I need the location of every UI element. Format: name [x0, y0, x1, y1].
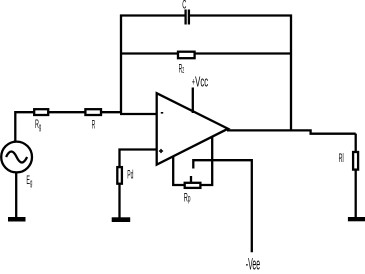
- svg-text:Eg: Eg: [26, 173, 32, 187]
- wire pot left (from op-amp underside to Rp): [173, 157, 185, 185]
- wire top loop to capacitor: [120, 14, 185, 16]
- wire Rg to R: [48, 111, 86, 113]
- resistor Rg: [34, 109, 48, 115]
- resistor Rl: [353, 152, 358, 170]
- potentiometer Rp: [185, 176, 201, 188]
- resistor Pd: [117, 167, 122, 184]
- resistor R: [85, 109, 101, 115]
- wire Rl to ground: [355, 170, 357, 217]
- wire capacitor to right: [190, 14, 292, 16]
- svg-text:Rl: Rl: [339, 152, 344, 165]
- ground (Pd): [112, 217, 131, 222]
- wire Eg to ground: [15, 173, 17, 218]
- wire input left (from Eg top up and right to Rg): [15, 112, 34, 142]
- svg-text:C: C: [182, 0, 186, 11]
- resistor R2: [178, 52, 195, 59]
- svg-text:Pd: Pd: [127, 168, 133, 181]
- wire pot right (from op-amp underside to Rp): [200, 137, 212, 185]
- wire feedback left vertical: [120, 15, 122, 114]
- wire non-inverting input: [120, 150, 158, 168]
- wire Pd to ground: [118, 184, 120, 217]
- ground (Eg): [8, 217, 26, 222]
- capacitor C: [186, 10, 189, 25]
- wire wiper to -Vee: [193, 160, 252, 252]
- wire +Vcc: [192, 88, 194, 114]
- wire output to Rl: [355, 134, 357, 152]
- wire R2 loop left: [120, 52, 178, 54]
- svg-text:R2: R2: [179, 62, 185, 75]
- wire R to feedback node: [101, 111, 122, 113]
- wire inverting input: [120, 113, 157, 115]
- wire feedback right vertical: [290, 15, 292, 132]
- op-amp U1: [157, 93, 228, 164]
- svg-text:-Vee: -Vee: [246, 254, 260, 274]
- wire output: [227, 130, 356, 133]
- svg-text:+Vcc: +Vcc: [192, 73, 208, 91]
- svg-text:Rg: Rg: [35, 117, 41, 131]
- svg-text:Rp: Rp: [184, 191, 191, 204]
- ground (Rl): [348, 217, 365, 221]
- wire R2 loop right: [196, 52, 293, 54]
- source Eg: [1, 142, 32, 173]
- svg-text:R: R: [92, 118, 96, 131]
